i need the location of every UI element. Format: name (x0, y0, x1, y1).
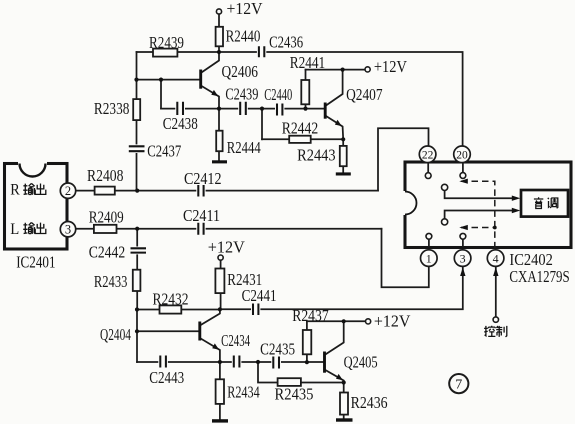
wire: Q2404 base line (137, 330, 200, 332)
wire: Q2406 collector (201, 52, 219, 73)
wire: R2444 branch to ground (218, 109, 220, 161)
Q2405 emitter arrow (336, 374, 343, 380)
capacitor C2411 (196, 222, 205, 236)
IC2401 pin 3 (60, 222, 75, 237)
junction Q2405 emitter / R2435 line (342, 380, 346, 384)
svg-text:R2409: R2409 (89, 208, 124, 227)
switch lever upper to tone box (445, 190, 513, 198)
wire: R2442 line (262, 138, 343, 140)
wire: R2435 branch (258, 362, 344, 383)
svg-text:R2433: R2433 (94, 272, 128, 291)
wire: R2441 stem (305, 70, 307, 109)
junction Q2405 collector / +12V line (342, 319, 346, 323)
+12V terminal Q2407 (365, 67, 370, 72)
IC2402 pin 22 (419, 146, 436, 163)
svg-text:R2441: R2441 (290, 53, 326, 72)
capacitor C2440 (275, 103, 284, 118)
arrow into tone box upper (512, 196, 521, 201)
wire: main top line through R2439 and C2436 to pin 20 (137, 52, 463, 146)
IC2402 pin 3 stem (462, 239, 464, 246)
junction Q2406 base line / C2438 branch (159, 78, 163, 82)
svg-text:R2435: R2435 (275, 385, 314, 404)
contact circle pin22 (425, 173, 431, 179)
ground below R2436 (336, 418, 353, 421)
junction R channel line / C2437 bus (135, 189, 139, 193)
wire: Q2405 emitter to R2436 and ground (325, 370, 344, 419)
IC2402 pin 1 stem (428, 239, 430, 246)
svg-text:3: 3 (460, 251, 466, 265)
resistor R2436 (340, 393, 348, 415)
svg-text:3: 3 (65, 223, 71, 237)
transistor Q2406 base bar (199, 70, 202, 89)
svg-text:Q2405: Q2405 (344, 353, 378, 372)
svg-text:R2443: R2443 (297, 146, 336, 165)
resistor R2434 (216, 379, 224, 404)
tone label yin (534, 197, 543, 208)
resistor R2408 (95, 187, 115, 195)
svg-text:R2442: R2442 (282, 119, 319, 138)
svg-text:C2434: C2434 (221, 332, 250, 351)
resistor R2443 (340, 146, 347, 166)
wire: R channel line from pin 2 through R2408 and C2412 (75, 190, 378, 192)
resistor R2338 (133, 99, 140, 120)
svg-text:R2444: R2444 (227, 138, 261, 157)
junction Q2404 base line (135, 329, 139, 333)
junction C2434/C2435 node / R2435 branch (256, 360, 260, 364)
+12V terminal top (216, 9, 221, 14)
wire: C2441 line to IC2402 pin 3 (220, 267, 463, 310)
arrow into tone box lower (512, 208, 521, 213)
junction R2440 bottom / top line (217, 50, 221, 54)
svg-text:4: 4 (493, 251, 499, 265)
capacitor C2437 (128, 144, 146, 153)
svg-text:C2441: C2441 (242, 286, 277, 305)
svg-text:R: R (10, 182, 20, 199)
resistor R2440 (216, 27, 223, 47)
wire: drop from C2439/C2440 node to R2442 line (261, 109, 263, 140)
wire: left bus down to C2443 line (136, 310, 138, 363)
junction Q2407 collector / +12V line (341, 68, 345, 72)
wire: Q2407 emitter to R2443 and ground (325, 116, 343, 173)
transistor Q2405 base bar (323, 352, 326, 373)
svg-text:Q2406: Q2406 (222, 62, 259, 81)
svg-text:R2437: R2437 (292, 306, 329, 325)
Q2404 emitter arrow (212, 343, 219, 349)
IC2401 pin 2 (60, 183, 75, 198)
svg-text:22: 22 (422, 149, 434, 161)
capacitor C2439 (238, 101, 248, 116)
wire: +12V line for Q2405 (307, 320, 366, 322)
svg-text:20: 20 (456, 149, 468, 161)
junction Q2404 emitter / C2434 / R2434 (218, 360, 222, 364)
svg-text:R2439: R2439 (149, 33, 184, 52)
capacitor C2438 (175, 101, 185, 116)
resistor R2432 (160, 305, 182, 313)
ground below R2443 (336, 172, 351, 175)
contact circle pin20 (460, 173, 466, 179)
pin 3 up arrow (460, 267, 465, 276)
label R output: shu (23, 183, 34, 194)
svg-text:+12V: +12V (227, 0, 263, 18)
IC2402 pin 4 (487, 250, 504, 267)
svg-text:C2440: C2440 (264, 85, 292, 104)
svg-text:R2408: R2408 (87, 166, 124, 185)
wire: +12V stem to R2440 (218, 14, 220, 52)
svg-text:Q2407: Q2407 (346, 86, 383, 105)
resistor R2433 (133, 270, 141, 291)
svg-text:2: 2 (65, 184, 71, 198)
wire: drop from base line to C2438 (160, 80, 162, 109)
wire: Q2406 emitter (201, 86, 219, 109)
ground below R2444 (212, 160, 227, 163)
wire: Q2404 emitter (200, 338, 220, 362)
wire: pin 4 control line (495, 267, 497, 317)
label control: kong (484, 326, 495, 337)
resistor R2439 (153, 49, 177, 57)
+12V terminal Q2405 (366, 319, 371, 324)
svg-text:CXA1279S: CXA1279S (509, 267, 569, 286)
IC2402 pin 22 stem (427, 164, 429, 173)
ground below R2434 (212, 419, 228, 422)
wire: C2438 line to Q2406 emitter node (161, 108, 219, 110)
resistor R2441 (301, 80, 309, 104)
wire: C2442/R2433 branch (136, 229, 138, 310)
junction left bus / Q2406 base line (134, 78, 138, 82)
wire: Q2404 collector (200, 310, 220, 326)
IC2402 pin 1 (421, 250, 438, 267)
junction dashed control lines (493, 226, 497, 230)
wire: C2443/C2434/C2435 line to Q2405 base (137, 361, 325, 363)
pin 4 up arrow (493, 267, 498, 276)
IC2402 pin 3 (454, 250, 471, 267)
tone box (521, 190, 568, 217)
lever circle upper (442, 184, 448, 190)
wire: R2437 stem (306, 321, 308, 362)
contact circle pin1 (426, 233, 432, 239)
wire: R2431 stem from +12V (220, 260, 222, 309)
Q2406 emitter arrow (211, 90, 218, 96)
svg-text:+12V: +12V (374, 312, 411, 331)
wire: drop to pin 1 (382, 229, 429, 288)
IC2402 pin 20 stem (462, 164, 464, 173)
capacitor C2435 (271, 356, 281, 370)
capacitor C2412 (196, 184, 205, 198)
svg-text:R2436: R2436 (351, 393, 388, 412)
resistor R2442 (289, 136, 311, 143)
+12V terminal R2431 (218, 255, 223, 260)
label L output: chu (35, 223, 46, 234)
resistor R2444 (216, 131, 222, 152)
wire: Q2405 collector (325, 321, 344, 355)
svg-text:C2438: C2438 (163, 115, 198, 134)
junction R2441 bottom / Q2407 base (303, 107, 307, 111)
junction R2437 bottom / Q2405 base (305, 360, 309, 364)
svg-text:C2439: C2439 (225, 85, 258, 104)
junction Q2406 emitter node (217, 107, 221, 111)
switch lever lower to tone box (445, 211, 513, 220)
junction R2433 bottom / R2432 line (135, 307, 139, 311)
IC2402 pin 20 (454, 146, 471, 163)
resistor R2435 (278, 378, 301, 386)
svg-text:C2442: C2442 (89, 243, 126, 262)
svg-text:C2435: C2435 (260, 340, 295, 359)
label control: zhi (496, 326, 507, 337)
svg-text:C2443: C2443 (149, 368, 184, 387)
wire: left vertical bus x=136.5 down to R channel line (136, 52, 138, 191)
wire: riser to pin 22 (378, 128, 429, 190)
svg-text:C2437: C2437 (147, 142, 181, 161)
contact circle pin3 (460, 233, 466, 239)
dashed control line lower (461, 227, 495, 229)
dashed control line upper (461, 181, 495, 250)
svg-text:1: 1 (426, 251, 432, 265)
svg-text:R2338: R2338 (94, 100, 130, 119)
svg-text:7: 7 (455, 378, 462, 393)
wire: L channel line from pin 3 through R2409 and C2411 (75, 228, 381, 230)
label L output: shu (23, 223, 34, 234)
svg-text:C2436: C2436 (269, 33, 303, 52)
circled 7 mark (449, 374, 468, 393)
junction L channel line / C2442 branch (135, 227, 139, 231)
control terminal (493, 317, 498, 322)
resistor R2431 (215, 269, 224, 294)
svg-text:Q2404: Q2404 (100, 325, 131, 344)
wire: Q2406 base line (137, 79, 201, 81)
tone label diao (548, 198, 558, 208)
wire: R2432 line (137, 309, 220, 311)
svg-text:R2432: R2432 (153, 290, 189, 309)
label R output: chu (35, 184, 46, 195)
capacitor C2434 (232, 355, 242, 369)
wire: +12V line for Q2407 (306, 69, 365, 71)
wire: R2434 branch to ground (219, 362, 221, 420)
wire: C2439/C2440 line to Q2407 base (219, 108, 325, 110)
svg-text:IC2401: IC2401 (16, 253, 55, 272)
junction C2439/C2440 node (260, 107, 264, 111)
IC2402 box (405, 162, 571, 248)
svg-text:R2434: R2434 (227, 383, 260, 402)
svg-text:+12V: +12V (374, 57, 407, 76)
svg-text:R2440: R2440 (226, 27, 261, 46)
capacitor C2443 (158, 355, 168, 369)
capacitor C2441 (251, 303, 260, 317)
junction Q2404 collector / R2431 / C2441 (218, 307, 222, 311)
junction Q2407 emitter / R2442 line (341, 137, 345, 141)
Q2407 emitter arrow (335, 120, 342, 126)
transistor Q2407 base bar (324, 103, 327, 119)
svg-text:C2412: C2412 (184, 169, 222, 188)
capacitor C2442 (130, 247, 147, 255)
IC2401 box (5, 164, 68, 250)
resistor R2437 (303, 330, 312, 354)
resistor R2409 (94, 225, 117, 233)
transistor Q2404 base bar (198, 322, 201, 341)
svg-text:C2411: C2411 (183, 206, 220, 225)
capacitor C2436 (257, 45, 266, 59)
svg-text:L: L (10, 221, 19, 238)
svg-text:+12V: +12V (208, 238, 245, 257)
wire: Q2407 collector (325, 70, 342, 106)
lever circle lower (442, 219, 448, 225)
